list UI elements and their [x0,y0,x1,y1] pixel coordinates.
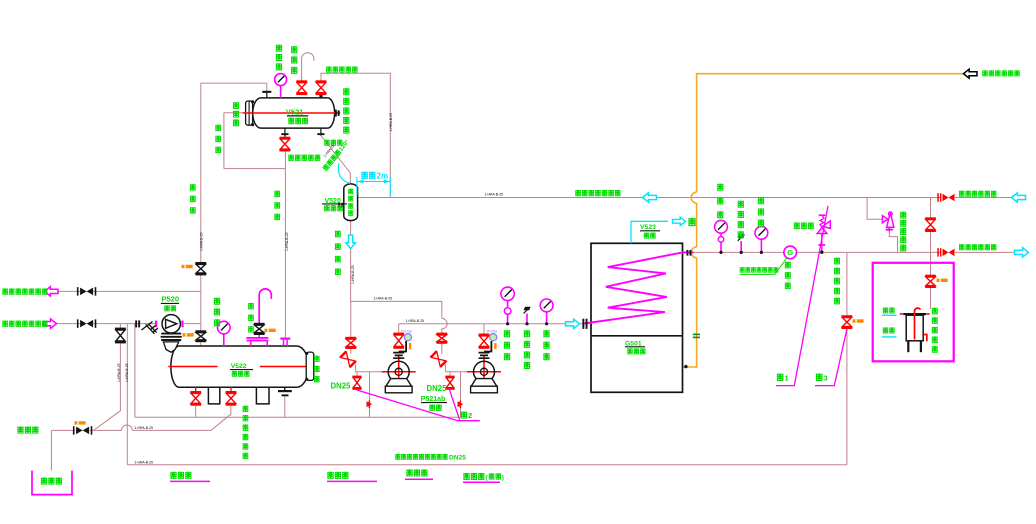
wire pump1 casing drain x=369.5 [369,372,371,417]
label main return line left [575,190,581,196]
valve fill riser lower (black) [195,330,206,332]
level gauge on V522 right cap [306,352,314,380]
svg-text:1-HRA-B-25: 1-HRA-B-25 [135,460,154,464]
svg-text:1-HRA-B-25: 1-HRA-B-25 [125,363,129,382]
arrow return header right (cyan) [1012,193,1026,202]
label boredianou supply [738,201,744,208]
svg-text:DN25: DN25 [331,382,352,391]
temperature gauge V522 [218,321,231,334]
sampling cooler box [873,263,954,362]
svg-text:1-HRA-B-25: 1-HRA-B-25 [135,426,154,430]
V522 bottom outlet nozzle [284,387,286,390]
label wendubiao V522 [214,298,220,305]
V521 red centerline [243,112,341,114]
P520 discharge flange [181,321,183,328]
label anquanfa [794,222,800,228]
pressure differential control valve (magenta) [882,216,887,223]
wire sample line x=930.5 down [930,252,932,274]
svg-text:1-HRA-B-25: 1-HRA-B-25 [374,297,393,301]
wire bypass x=930.5 between headers [930,198,932,218]
dimension >2m (cyan) [356,177,358,196]
valve pump2 discharge (red) [479,334,490,336]
label paiwukou [17,426,23,433]
V522 support leg left [208,387,219,404]
label feiyouchi [41,477,47,484]
wire overflow line x=285.4 [284,152,286,338]
label youlu after arrow [688,218,695,226]
valve vent V521 (red) [296,80,307,82]
label bottom xunhuanbeng backup [463,473,469,480]
valve pump1 suction angle (red) [339,351,357,369]
valve tick pump2 drain (red) [458,401,464,407]
thermocouple pump header [526,314,528,324]
label kuaisuqieduanfa [326,66,331,72]
label boredianou pump header [524,330,530,337]
valve V522 drain1 (red) [190,391,201,393]
arrow return header mid (cyan) [643,193,657,202]
V522 drain nozzle right [230,387,232,391]
svg-text:Pr03a: Pr03a [487,328,498,333]
pressure gauge supply header [715,220,728,233]
label yiliuguan mid [274,191,280,197]
arrow system outlet (magenta) [45,287,59,297]
wire quick-shutoff line to header [321,73,390,197]
svg-text:): ) [502,475,504,482]
valve V522 drain2 (red) [226,391,237,393]
label yemianji V521 [233,102,239,108]
label beng1 [777,373,784,380]
label fangkongguan V522 [248,303,254,309]
tag N-100 riser upper [182,265,185,268]
label wendubiao supply [758,197,764,204]
valve blowdown (black) [76,427,89,435]
svg-text:1-HRA-B-25: 1-HRA-B-25 [117,363,121,382]
label zhuyouguan [190,184,196,190]
V521 bottom nozzle right [320,128,322,135]
wire waste-oil supply line (orange) [697,74,966,193]
V521 right nozzle [335,110,337,117]
safety valve PSV (magenta) [817,228,827,234]
tag N-100 blowdown [75,421,78,424]
wire inlet-drop valve line x=120.4 [119,324,121,328]
wire V521 vent swan neck [302,53,314,81]
label yemianji V522 [314,356,320,362]
wire DN25 drain valve1 stub [356,372,358,376]
V522 red centerline [168,366,217,368]
label main supply right [959,244,964,250]
label yachajiefa [900,212,906,218]
heater G501 box [591,243,683,392]
pump P521a [382,371,416,373]
label wendubiao V521 [276,45,282,52]
label jingdian baohu [243,406,249,412]
tag N-100 sample valve [937,279,940,282]
node valve B junction [319,94,322,97]
leader pump1 (PSV to label) [776,206,828,386]
valve pump1 discharge (red) [393,333,404,335]
coil outlet flange [687,250,689,256]
V522 temperature gauge nozzle [223,334,225,346]
arrow system inlet (magenta) [43,319,57,329]
wire system outlet line y=291.4 [58,290,80,292]
vessel V521 high-level tank [253,98,335,128]
pump P520 [162,315,180,333]
V522 support leg right [256,387,269,404]
wire fill riser (zhu-you-guan) x=200.8 [200,83,202,346]
tag N-100 riser lower [183,333,186,336]
svg-text:1-HRA-B-25: 1-HRA-B-25 [200,232,204,251]
svg-text:1-HRA-B-25: 1-HRA-B-25 [389,113,393,132]
label from waste oil tank [982,70,987,76]
label zhuxunhuanguan V520 [335,231,341,237]
wire pump2 casing drain x=460.5 [460,372,462,417]
label pengzhangguan [324,140,329,146]
svg-text:3: 3 [824,374,828,383]
V520 left nozzle [338,202,340,208]
temperature gauge pump header [540,299,553,312]
wire main return header y=197.5 [358,197,941,199]
arrow V523 branch (cyan) [631,221,668,243]
heater coil (magenta zigzag) [584,252,694,323]
wire drain riser x=127.3 [126,324,128,465]
node orange line to G501 [684,365,687,368]
label flowmeter note [740,267,745,272]
flow meter G on supply header [784,246,797,259]
wire drain riser x=134.9 + upper drain header y=417.2 [134,324,136,418]
valve return header right (red) [943,194,955,202]
label rotated angle text [322,138,351,172]
temperature gauge V521 [275,74,287,86]
tag N-100 V522 vent [265,329,268,332]
svg-text:DN25: DN25 [449,454,466,461]
coil inlet flange [582,319,584,329]
wire system inlet line y=323.6 [56,323,80,325]
valve system outlet (black) [80,288,93,296]
valve supply header right (red) [943,249,955,257]
valve pump2 suction angle (red) [430,350,448,368]
angle arc annotation (cyan) [338,163,350,183]
arrow from waste oil tank (black) [964,69,978,78]
label main return right [959,191,964,197]
wire V520 outlet down + to pump suction header [351,220,442,319]
pressure gauge pump header [501,287,514,300]
valve system inlet (black) [80,320,93,328]
wire level-gauge line x=223.9 [224,112,243,114]
svg-text:Pr03a: Pr03a [401,328,412,333]
label wendubiao pump header [543,330,549,337]
label daoreyou jinru xitong [2,320,8,326]
valve tick pump1 drain (red) [367,401,373,407]
valve cold-oil x847 (red) [842,315,853,317]
svg-text:1-HRA-B-25: 1-HRA-B-25 [406,319,425,323]
vessel V520 buffer tank [344,184,358,221]
wire pump discharge header y=323.8 [399,323,583,325]
label daoreyou paichu xitong [2,288,8,294]
wire main supply header y=252.4 [694,251,942,253]
V521 bottom nozzle left [284,128,286,137]
wire V522 drain valve1 drop [195,406,197,418]
label liuliangji [785,262,791,268]
label bottom guolvqi [327,472,333,479]
label sample direct [883,307,888,313]
valve bypass x930 (red) [925,217,936,219]
label gong2 [461,411,467,418]
wire V522 outlet drop x=284.8 [284,397,286,418]
V522 drain nozzle left [195,387,197,391]
flow meter leader [740,258,788,275]
waste oil pool [32,471,72,495]
valve sample (red) [925,275,936,277]
label yalibiao supply [717,184,723,191]
arrow pump header to G501 (cyan) [566,319,580,329]
valve fill riser upper (black) [195,262,206,264]
label yeweibaojingqi [343,88,349,95]
leader DN25-2 [450,390,460,421]
level gauge on V521 left cap [246,101,253,125]
V521 top nozzle [262,91,271,93]
svg-text:1-HRA-B-25: 1-HRA-B-25 [485,193,504,197]
valve pump2 suction (red) [436,333,447,335]
pump P521b [467,371,501,373]
V522 vent swan neck [259,289,271,323]
label yiliuguan left [215,125,221,131]
label quyanglengqueqi [932,308,938,314]
wire blowdown line y=430.4 [51,429,75,431]
label inside V520 [348,189,353,194]
svg-text:DN25: DN25 [427,384,448,393]
thermocouple supply header [740,241,742,252]
label sample pump [883,327,888,333]
tag N-100 cold-oil valve [853,319,856,322]
vessel V522 storage tank [171,346,309,387]
leader DN25-1 [356,390,480,421]
label bottom xunhuanbeng [406,469,412,476]
wire bottom drain header y=464.8 [127,464,847,466]
label dayu2m [361,172,367,179]
label yalibiao pump header [504,330,510,337]
wire cold-oil replacement line x=846.9 [846,252,848,315]
label rotated black tick [323,144,336,158]
wire expansion pipe diagonal to V520 [321,136,350,185]
svg-text:2m: 2m [377,172,389,181]
temperature gauge supply header [755,226,768,239]
label fangkongguan V521 [291,46,297,53]
svg-text:V521: V521 [286,108,304,117]
P520 suction flange [155,321,157,328]
svg-text:1-HRA-B-25: 1-HRA-B-25 [351,265,355,284]
svg-text:V523: V523 [640,224,656,231]
label bottom note DN25 [395,454,400,459]
svg-text:1-HRA-B-25: 1-HRA-B-25 [285,232,289,251]
valve DN25 drain1 (red) [352,376,361,378]
wire pump1 discharge riser [398,324,400,333]
svg-text:2: 2 [468,411,472,420]
V522 overflow nozzle flange [280,338,290,340]
wire PDC branch [867,198,882,220]
valve DN25 drain2 (red) [445,376,454,378]
wire DN25 drain valve2 stub [449,372,451,376]
arrow supply header right (cyan) [1015,248,1029,257]
wire pump1 suction train [350,301,352,336]
valve pump1 suction (red) [345,337,356,339]
valve V522 vent (black) [254,323,265,325]
valve quick-shutoff V521 (red) [316,80,327,82]
label kuaisupaifangfa [288,154,294,160]
svg-text:P520: P520 [162,295,180,304]
V522 vent nozzle flange [246,337,268,339]
valve inlet-drop (black) [115,328,126,330]
check valve on inlet line [135,320,137,327]
arrow V520 outlet down (cyan) [346,235,356,249]
strainer at P520 suction [146,324,157,334]
wire pump2 suction train [441,332,443,334]
label lengyouzhihuanguan [834,258,840,264]
label beng3 [816,373,823,380]
leader pump3 (valve to label) [815,329,847,386]
svg-text:G: G [787,248,793,257]
wire pump2 discharge riser [483,324,485,334]
label bottom zhuyoubeng [170,472,176,479]
svg-text:1: 1 [785,374,789,383]
valve quick-drain V521 (red) [280,137,291,139]
sampling cooler vessel [903,313,926,315]
